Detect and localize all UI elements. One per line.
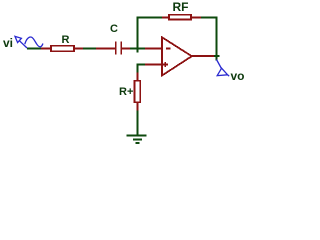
- svg-text:C: C: [110, 23, 118, 35]
- svg-text:RF: RF: [173, 0, 189, 14]
- svg-text:R+: R+: [119, 86, 133, 98]
- svg-text:vo: vo: [231, 69, 245, 83]
- svg-text:vi: vi: [3, 36, 13, 50]
- svg-text:R: R: [62, 34, 70, 46]
